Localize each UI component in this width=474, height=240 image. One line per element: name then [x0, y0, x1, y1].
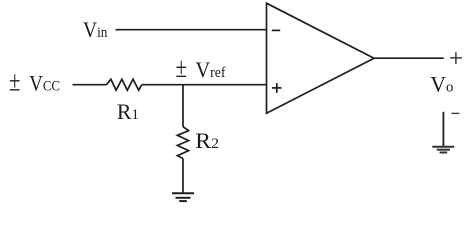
op-amp U1	[267, 3, 375, 113]
resistor R2	[177, 127, 188, 159]
output minus terminal	[452, 112, 460, 114]
wire op-amp output	[374, 57, 444, 59]
wire junction to R2	[182, 85, 184, 127]
wire R1 to op-amp noninverting input	[142, 84, 267, 86]
wire Vin to op-amp inverting input	[116, 29, 267, 31]
wire R2 to ground	[182, 159, 184, 194]
wire output negative terminal stub	[442, 112, 444, 147]
ground (below R2)	[172, 193, 194, 201]
svg-text:±: ±	[176, 53, 188, 84]
svg-text:±: ±	[9, 67, 21, 98]
wire VCC to R1	[73, 84, 107, 86]
output plus terminal	[450, 52, 462, 64]
resistor R1	[107, 79, 142, 90]
ground (below Vo)	[432, 147, 454, 153]
op-amp noninverting pin marker	[272, 83, 282, 93]
op-amp inverting pin marker	[272, 29, 280, 31]
